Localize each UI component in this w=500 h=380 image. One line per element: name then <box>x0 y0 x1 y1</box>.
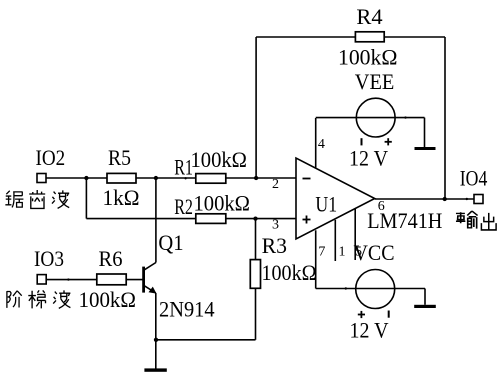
lead dot <box>404 116 406 118</box>
op-amp plus sign <box>303 216 311 224</box>
junction dot <box>154 338 158 342</box>
wire <box>46 279 144 281</box>
svg-text:7: 7 <box>318 244 325 259</box>
port IO4 <box>474 195 483 204</box>
hanzi chu (out) <box>481 213 496 230</box>
transistor Q1 <box>142 267 145 293</box>
wire <box>315 230 317 288</box>
ground (VCC) <box>414 305 436 308</box>
svg-text:5: 5 <box>355 244 362 259</box>
VEE plus sign <box>385 138 392 145</box>
wire <box>424 118 426 148</box>
junction dot <box>154 176 158 180</box>
svg-text:R3: R3 <box>262 233 287 258</box>
junction dot <box>253 216 257 220</box>
VEE minus tick <box>361 138 363 145</box>
port IO3 <box>37 275 46 284</box>
VCC minus tick <box>388 311 390 318</box>
source VCC circle <box>356 270 395 309</box>
svg-text:2N914: 2N914 <box>159 297 215 322</box>
wire <box>255 37 257 178</box>
hanzi ju (saw) <box>5 191 23 208</box>
transistor Q1 emitter arrow <box>149 287 157 294</box>
svg-text:IO2: IO2 <box>36 145 66 170</box>
wire <box>144 285 156 293</box>
svg-text:R6: R6 <box>99 246 123 271</box>
source VEE circle <box>356 98 395 137</box>
svg-text:Q1: Q1 <box>158 230 183 255</box>
port IO2 <box>37 174 46 183</box>
svg-text:R4: R4 <box>356 4 382 29</box>
lead dot <box>466 198 468 200</box>
svg-text:VEE: VEE <box>355 69 395 94</box>
wire <box>316 288 425 290</box>
ground (bottom) <box>144 368 166 371</box>
wire <box>424 289 426 305</box>
wire pin 1 stub <box>334 220 336 261</box>
svg-text:100kΩ: 100kΩ <box>262 260 317 285</box>
hanzi ti (ladder) <box>28 290 45 308</box>
wire <box>255 219 257 340</box>
resistor R2 <box>196 214 226 224</box>
hanzi bo (wave) <box>52 190 69 208</box>
svg-text:U1: U1 <box>315 191 337 216</box>
wire <box>256 36 445 38</box>
wire <box>155 293 157 369</box>
hanzi bo2 (wave) <box>53 290 70 308</box>
wire <box>444 37 446 199</box>
resistor R6 <box>97 274 126 285</box>
wire <box>156 339 256 341</box>
junction dot <box>84 176 88 180</box>
resistor R1 <box>196 174 226 184</box>
svg-text:12 V: 12 V <box>349 146 388 171</box>
junction dot <box>443 197 447 201</box>
svg-text:R5: R5 <box>108 145 131 170</box>
svg-text:12 V: 12 V <box>350 318 389 343</box>
resistor R4 <box>355 32 384 42</box>
svg-text:100kΩ: 100kΩ <box>194 190 251 215</box>
wire <box>46 177 296 179</box>
wire <box>375 198 474 200</box>
hanzi shu (export) <box>456 211 478 229</box>
lead dot <box>345 287 347 289</box>
svg-text:R2: R2 <box>174 194 193 219</box>
hanzi chi (tooth) <box>29 190 45 208</box>
svg-text:IO4: IO4 <box>460 165 488 190</box>
resistor R5 <box>107 173 136 183</box>
svg-text:100kΩ: 100kΩ <box>191 147 248 172</box>
ground (VEE) <box>415 147 436 150</box>
wire <box>316 117 425 119</box>
hanzi jie (step) <box>7 291 22 308</box>
svg-text:100kΩ: 100kΩ <box>338 45 398 70</box>
junction dot <box>254 176 258 180</box>
wire <box>155 178 157 263</box>
VCC plus sign <box>358 311 365 318</box>
wire <box>86 218 296 220</box>
svg-text:6: 6 <box>378 199 385 214</box>
lead dot <box>184 177 186 179</box>
lead dot <box>67 278 69 280</box>
svg-text:4: 4 <box>318 137 325 152</box>
svg-text:2: 2 <box>272 177 279 192</box>
wire <box>85 178 87 219</box>
svg-text:1kΩ: 1kΩ <box>103 185 140 210</box>
op-amp U1 <box>296 158 375 239</box>
svg-text:3: 3 <box>272 217 279 232</box>
op-amp minus sign <box>303 178 311 180</box>
svg-text:IO3: IO3 <box>34 246 64 271</box>
wire <box>144 263 156 271</box>
wire pin 5 stub <box>354 208 356 260</box>
svg-text:1: 1 <box>339 244 346 259</box>
svg-text:100kΩ: 100kΩ <box>79 287 137 312</box>
resistor R3 <box>250 260 260 289</box>
wire <box>315 118 317 168</box>
